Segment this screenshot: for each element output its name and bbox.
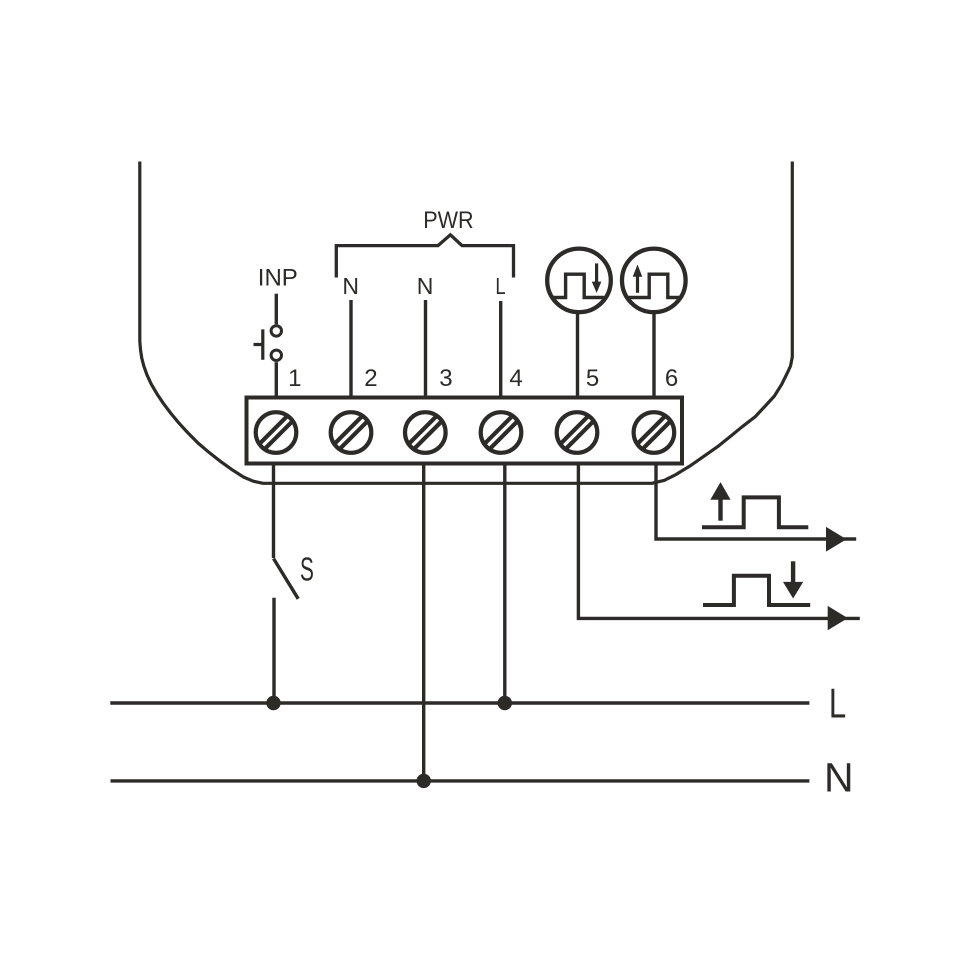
svg-text:1: 1 (288, 365, 301, 392)
PWR bracket (336, 235, 513, 278)
wire terminal 6 (652, 313, 655, 396)
L line (110, 701, 809, 704)
junction terminal 4 on L line (498, 696, 512, 710)
output symbol falling edge (terminal 5) (547, 249, 611, 313)
push button S1 upper contact (271, 326, 281, 336)
junction terminal 3 on N line (417, 774, 431, 788)
screw terminal 4 (477, 409, 525, 457)
svg-text:L: L (829, 680, 846, 727)
svg-text:N: N (342, 273, 359, 299)
svg-text:L: L (495, 274, 505, 299)
svg-text:5: 5 (586, 365, 599, 392)
svg-text:3: 3 (439, 365, 452, 392)
svg-text:S: S (300, 551, 314, 588)
wire terminal 3 (424, 300, 427, 396)
svg-text:N: N (824, 755, 854, 801)
svg-text:2: 2 (364, 365, 377, 392)
falling edge arrow output 2 (791, 561, 795, 583)
wire terminal 4 (499, 301, 502, 396)
wire terminal 5 to output 2 (578, 466, 859, 619)
device outline (140, 162, 793, 484)
junction switch on L line (266, 696, 280, 710)
push button actuator (254, 329, 263, 359)
wire terminal 4 to L line (503, 466, 506, 704)
svg-text:INP: INP (258, 264, 298, 291)
terminal block (247, 398, 683, 464)
svg-text:PWR: PWR (423, 206, 473, 233)
output symbol rising edge (terminal 6) (622, 249, 686, 313)
screw terminal 5 (553, 409, 601, 457)
rising edge waveform output 1 (702, 497, 808, 527)
svg-text:4: 4 (509, 365, 522, 392)
push button S1 lower contact (271, 350, 281, 360)
screw terminal 3 (402, 409, 450, 457)
svg-text:N: N (417, 273, 434, 299)
wire terminal 2 (349, 300, 352, 396)
wire terminal 3 to N line (422, 466, 425, 782)
wire push button to terminal 1 (275, 362, 278, 395)
wire switch to L line (272, 598, 275, 703)
wire terminal 5 (576, 313, 579, 396)
screw terminal 2 (327, 409, 375, 457)
arrowhead output 1 (826, 527, 847, 552)
screw terminal 1 (252, 409, 300, 457)
falling edge waveform output 2 (703, 576, 810, 605)
svg-text:6: 6 (665, 365, 678, 392)
rising edge arrow output 1 (718, 498, 722, 521)
switch S blade (274, 559, 299, 599)
wire terminal 6 to output 1 (656, 466, 856, 540)
arrowhead output 2 (828, 606, 848, 630)
wire terminal 1 to switch (272, 466, 275, 559)
screw terminal 6 (630, 409, 678, 457)
wire INP to push button (275, 294, 278, 325)
N line (111, 779, 810, 782)
